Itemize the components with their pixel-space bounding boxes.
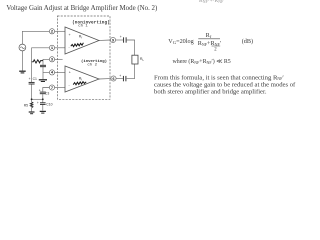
wire pin3 to C2 xyxy=(43,59,49,65)
svg-text:+: + xyxy=(69,71,71,75)
capacitor C1 xyxy=(29,81,35,83)
svg-text:+: + xyxy=(39,89,41,93)
svg-text:ch 1: ch 1 xyxy=(78,24,88,29)
pin 3 xyxy=(49,57,54,62)
pin 2 (IN1) xyxy=(49,29,54,34)
svg-text:-: - xyxy=(69,83,71,87)
svg-text:R5: R5 xyxy=(24,104,28,108)
capacitor C2 xyxy=(40,64,46,66)
wire junction bus xyxy=(32,98,43,100)
wire pin1 to opamp1 + xyxy=(55,30,65,32)
wire C2 to pin4 node xyxy=(42,67,44,72)
svg-text:(dB): (dB) xyxy=(242,38,253,45)
ground (R5) xyxy=(29,112,35,114)
op-amp ch2 xyxy=(65,66,99,92)
svg-text:L: L xyxy=(143,58,145,62)
capacitor C6 (output top) xyxy=(123,37,125,42)
wire pin5 to C3 xyxy=(43,88,50,92)
svg-text:C3: C3 xyxy=(45,92,49,96)
svg-text:+: + xyxy=(29,77,31,81)
svg-text:-: - xyxy=(69,45,71,49)
svg-text:f: f xyxy=(81,77,82,81)
wire opamp2 out to pin xyxy=(99,78,111,80)
svg-text:6: 6 xyxy=(112,78,114,82)
ground (source) xyxy=(19,71,26,73)
wire pin5 to opamp2 - xyxy=(49,87,65,89)
junction node B xyxy=(42,98,44,100)
svg-text:C1: C1 xyxy=(33,77,37,81)
wire pin4 node down to ground xyxy=(43,72,49,79)
wire C10 to ground xyxy=(42,105,44,111)
wire junction to R5 xyxy=(31,99,33,102)
wire pin to C6 xyxy=(116,39,123,41)
svg-text:RNF·+·RNF′′: RNF·+·RNF′′ xyxy=(199,0,226,4)
svg-text:causes the voltage gain to be: causes the voltage gain to be reduced at… xyxy=(154,81,296,88)
pin 1 (NF1) xyxy=(49,45,54,50)
wire opamp1 out to pin xyxy=(99,39,110,41)
output pin ch2 xyxy=(111,76,116,81)
AC source V1 xyxy=(19,44,26,51)
svg-text:2: 2 xyxy=(214,47,217,52)
svg-text:+: + xyxy=(69,33,71,37)
svg-text:+: + xyxy=(37,101,39,105)
svg-text:both stereo amplifier and brid: both stereo amplifier and bridge amplifi… xyxy=(154,88,267,95)
svg-text:ch 2: ch 2 xyxy=(87,62,97,67)
svg-text:Rf: Rf xyxy=(206,32,212,39)
wire C3 to junction xyxy=(42,94,44,99)
capacitor C3 xyxy=(40,91,46,93)
svg-text:+: + xyxy=(120,35,122,39)
svg-text:f: f xyxy=(81,36,82,40)
wire R5 to ground xyxy=(31,108,33,111)
wire top rail source to pin1 xyxy=(22,31,49,44)
output pin ch1 xyxy=(110,37,115,42)
formula VG xyxy=(154,32,296,95)
capacitor C7 (output bottom) xyxy=(122,76,124,81)
pin 4 (IN2) xyxy=(49,70,54,75)
wire pin2 down to C1 xyxy=(32,48,50,82)
junction node A xyxy=(31,98,33,100)
wire C6 to RL xyxy=(127,40,135,55)
wire pin2 to opamp1 - xyxy=(49,47,65,49)
svg-text:From this formula, it is seen: From this formula, it is seen that conne… xyxy=(154,74,284,81)
svg-text:VG=20log: VG=20log xyxy=(168,38,193,45)
wire source to ground xyxy=(21,51,23,71)
svg-text:C10: C10 xyxy=(46,103,52,107)
wire pin4 to opamp2 + xyxy=(49,71,65,73)
svg-text:+: + xyxy=(119,74,121,78)
wire C1 to junction xyxy=(31,84,33,99)
resistor Rf (ch1 internal) xyxy=(71,43,84,47)
ground (pin4 branch) xyxy=(39,80,47,82)
capacitor C10 xyxy=(40,102,46,104)
wire RL to C7 xyxy=(127,64,135,79)
svg-text:7: 7 xyxy=(51,87,53,91)
ground (C10) xyxy=(40,111,46,113)
resistor Rf (ch2 internal) xyxy=(73,82,86,85)
wire C7 to out pin 2 xyxy=(116,78,123,80)
wire pin3 stub inside xyxy=(55,58,63,60)
wire junction to C10 xyxy=(42,99,44,102)
resistor R5 (vertical zigzag) xyxy=(30,102,33,108)
op-amp ch1 xyxy=(65,27,99,54)
resistor RNF (zigzag) xyxy=(32,60,43,63)
svg-text:9: 9 xyxy=(112,39,114,43)
svg-text:where (RNF+RNF′) ≪ R5: where (RNF+RNF′) ≪ R5 xyxy=(173,58,231,65)
resistor RL (load) xyxy=(132,55,138,64)
svg-text:Voltage Gain Adjust at Bridge: Voltage Gain Adjust at Bridge Amplifier … xyxy=(6,5,157,12)
IC dashed box xyxy=(57,16,110,99)
svg-text:2: 2 xyxy=(51,31,53,35)
pin 7 (NF2) xyxy=(49,85,54,90)
